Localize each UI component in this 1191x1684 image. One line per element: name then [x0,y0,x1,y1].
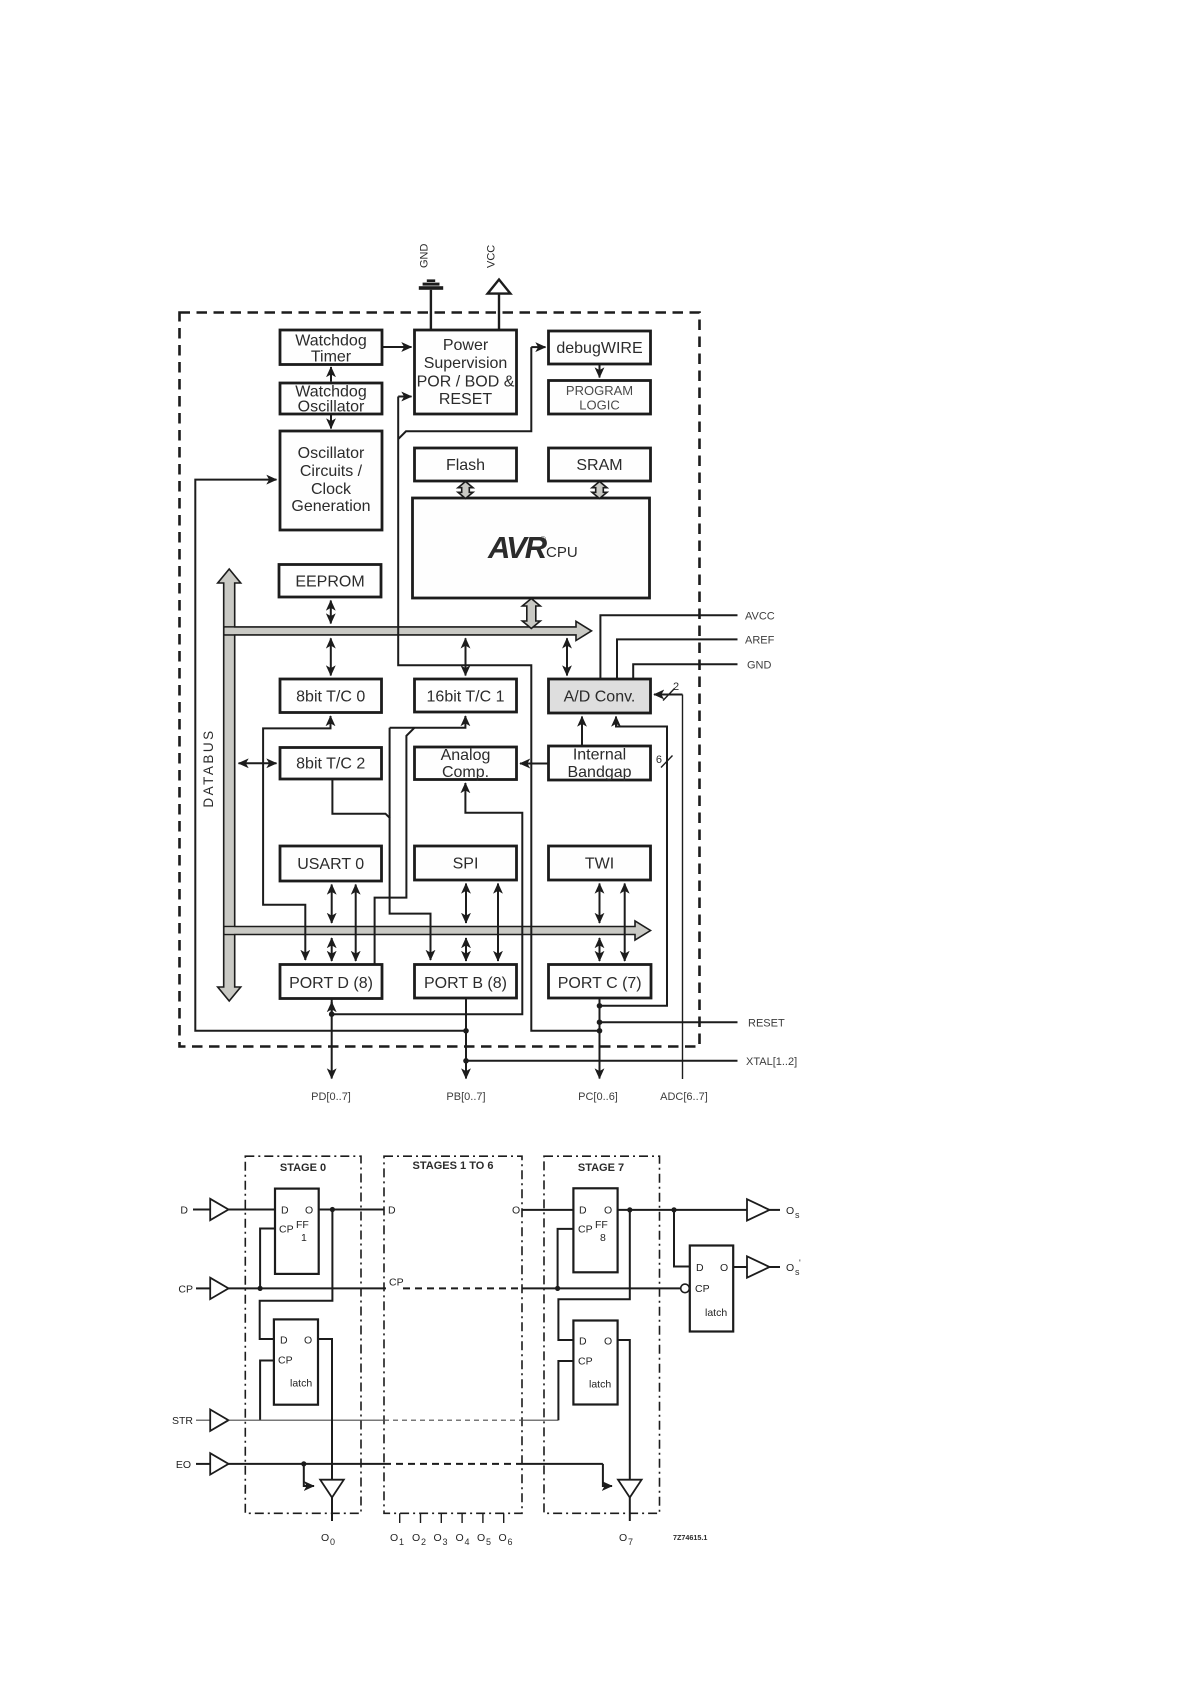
svg-text:O: O [512,1205,520,1217]
block A/D Conv [549,679,651,713]
svg-text:Timer: Timer [311,349,352,366]
wire RESET [597,1018,785,1030]
svg-text:D: D [388,1205,396,1217]
wire latch 7 CP to STR [558,1361,573,1420]
svg-text:Internal: Internal [573,747,626,764]
svg-text:SRAM: SRAM [576,457,622,474]
block Flash [415,448,517,481]
svg-text:Supervision: Supervision [424,355,508,372]
svg-text:AVCC: AVCC [745,611,775,623]
svg-text:AVR: AVR [487,530,548,565]
output buffer Os [747,1199,800,1220]
svg-text:LOGIC: LOGIC [579,398,619,413]
flip-flop FF1 [275,1189,319,1274]
svg-text:USART 0: USART 0 [297,856,364,873]
svg-text:8: 8 [600,1232,606,1244]
wire USART0 - PORT D direct [355,885,357,962]
wire D input to FF1 [229,1209,276,1211]
bus connector SRAM-CPU [592,482,607,499]
svg-text:CP: CP [278,1355,293,1367]
part number 7Z74615.1 [673,1533,707,1542]
wire CP dashed through stages 1 to 6 [403,1287,522,1289]
svg-text:8bit T/C 0: 8bit T/C 0 [296,689,365,706]
chip boundary dashed box [180,313,700,1047]
svg-text:1: 1 [301,1232,307,1244]
svg-text:s: s [795,1210,800,1220]
svg-text:FF: FF [296,1219,309,1231]
svg-text:PROGRAM: PROGRAM [566,383,633,398]
svg-text:RESET: RESET [748,1018,785,1030]
svg-text:7Z74615.1: 7Z74615.1 [673,1533,707,1542]
svg-text:PORT B (8): PORT B (8) [424,975,507,992]
svg-text:O: O [390,1532,398,1544]
svg-text:O: O [604,1205,612,1217]
wire Internal Bandgap to Analog Comp [520,763,549,765]
DATABUS vertical bus [201,569,241,1001]
wire SPI - databus [465,884,467,924]
wire PB port pins [446,998,485,1103]
wire FF1 output to latch 0 D [260,1210,333,1340]
wire Watchdog Timer - Watchdog Oscillator [330,367,332,382]
svg-text:PORT C (7): PORT C (7) [558,975,642,992]
svg-text:O: O [499,1532,507,1544]
svg-text:STR: STR [172,1415,193,1427]
svg-text:PD[0..7]: PD[0..7] [311,1091,351,1103]
svg-text:': ' [799,1258,801,1268]
svg-text:EEPROM: EEPROM [295,574,364,591]
wire AREF [617,635,775,680]
svg-text:ADC[6..7]: ADC[6..7] [660,1091,708,1103]
wire Internal Bandgap to A/D Conv [581,717,583,747]
block Internal Bandgap [549,746,651,781]
svg-text:latch: latch [589,1379,611,1391]
wire T/C2 output net to PORT B [332,728,430,960]
svg-text:EO: EO [176,1459,191,1471]
wire SPI - PORT B direct [497,884,499,962]
block Watchdog Timer [280,330,382,366]
block SRAM [549,448,651,481]
svg-text:CP: CP [178,1283,193,1295]
wire FF8 output to Os buffer [618,1207,747,1212]
wire EO stage 7 [522,1464,612,1486]
svg-text:O: O [786,1205,794,1217]
bus connector Flash-CPU [458,482,473,499]
output O0 [321,1532,335,1547]
wire databus - 8bit T/C 0 [330,638,332,675]
block Analog Comp [415,747,517,781]
svg-text:FF: FF [595,1219,608,1231]
svg-text:Oscillator: Oscillator [298,399,365,416]
svg-text:16bit T/C 1: 16bit T/C 1 [427,689,505,706]
wire STR line [229,1419,559,1421]
svg-text:debugWIRE: debugWIRE [556,340,642,357]
bus connector CPU-databus [522,599,540,629]
wire ADC[6..7] 2-channel net [654,681,683,1079]
svg-text:A/D Conv.: A/D Conv. [564,689,636,706]
svg-text:D: D [281,1205,289,1217]
wire FF8 output to output latch D [674,1210,690,1267]
wire CP line stage 0 [229,1229,404,1292]
wire databus - PORT D [331,938,333,961]
svg-text:Bandgap: Bandgap [567,764,631,781]
output latch Os' [690,1246,733,1332]
svg-text:O: O [304,1335,312,1347]
block 16bit T/C 1 [415,679,517,712]
svg-text:O: O [305,1205,313,1217]
output buffer Os' [747,1256,801,1277]
svg-text:Watchdog: Watchdog [295,333,366,350]
wire FF1 output to stage 1 D [319,1205,396,1217]
svg-text:4: 4 [465,1537,470,1547]
wire USART0 - databus [331,885,333,924]
svg-text:O: O [434,1532,442,1544]
wire ADC 6-channel input net from PORT C [597,717,673,1009]
input buffer EO [176,1453,229,1474]
wire XTAL [463,1056,797,1068]
svg-text:3: 3 [443,1537,448,1547]
stages 1 to 6 dash-dot box [384,1156,522,1513]
wire databus - PORT B [465,938,467,961]
block 8bit T/C 2 [280,748,382,780]
svg-text:VCC: VCC [486,245,498,268]
wire databus - PORT C [599,938,601,961]
input buffer D [180,1199,228,1220]
svg-text:GND: GND [747,660,772,672]
latch stage 7 [573,1321,617,1405]
wire databus - 16bit T/C 1 [465,638,467,675]
svg-text:CP: CP [389,1277,404,1289]
wire databus - 8bit T/C 2 [239,762,277,764]
svg-text:O: O [720,1262,728,1274]
svg-text:CP: CP [695,1283,710,1295]
svg-text:O: O [477,1532,485,1544]
svg-text:2: 2 [421,1537,426,1547]
block USART 0 [280,846,382,881]
svg-text:2: 2 [673,681,679,693]
block AVR CPU U1 [413,498,650,598]
svg-text:D: D [180,1205,188,1217]
svg-text:Circuits /: Circuits / [300,463,363,480]
svg-text:O: O [321,1532,329,1544]
svg-text:GND: GND [419,244,431,269]
wire latch 7 output to tri-state buffer [618,1340,630,1480]
latch stage 0 [274,1319,318,1404]
svg-text:D: D [696,1262,704,1274]
wire Watchdog Oscillator - Oscillator Circuits [330,415,332,429]
svg-text:XTAL[1..2]: XTAL[1..2] [746,1056,797,1068]
wire GND right [633,660,771,680]
wire PD port pins [311,999,351,1104]
wire EO line stage 0 [229,1461,385,1486]
svg-text:O: O [604,1336,612,1348]
svg-text:0: 0 [330,1537,335,1547]
svg-text:Clock: Clock [311,481,352,498]
wire Analog Comp inputs from PORT D pins [329,783,522,1017]
svg-text:Power: Power [443,337,489,354]
block PORT D (8) [280,965,382,999]
data bus upper horizontal [224,621,592,640]
block Watchdog Oscillator [280,383,382,416]
block PORT C (7) [549,965,652,999]
svg-text:6: 6 [508,1537,513,1547]
svg-text:STAGE 0: STAGE 0 [280,1162,326,1174]
wire latch 0 output to tri-state buffer [318,1339,332,1480]
svg-text:STAGE 7: STAGE 7 [578,1162,624,1174]
svg-text:TWI: TWI [585,856,614,873]
block debugWIRE [549,331,651,364]
block Oscillator Circuits / Clock Generation [280,431,382,530]
svg-text:DATABUS: DATABUS [201,728,216,807]
svg-text:STAGES 1 TO 6: STAGES 1 TO 6 [413,1160,494,1172]
svg-text:SPI: SPI [453,856,479,873]
wire EO dashed through stages 1 to 6 [384,1463,522,1465]
power symbol VCC [486,245,511,330]
wire databus - A/D Conv [566,638,568,675]
stage 0 dash-dot box [245,1156,361,1513]
svg-text:O: O [619,1532,627,1544]
wire TWI - PORT C direct [624,884,626,962]
svg-text:PORT D (8): PORT D (8) [289,975,373,992]
wire debugWIRE to PROGRAM LOGIC [599,364,601,378]
wire clock net to Oscillator Circuits [195,480,469,1034]
stage 7 dash-dot box [544,1156,660,1513]
svg-text:D: D [579,1205,587,1217]
wire T0 pin net: T/C0 to PORT D [263,716,330,960]
svg-text:Generation: Generation [291,498,370,515]
block 8bit T/C 0 [280,679,382,713]
wire FF8 output to latch 7 D [558,1210,629,1340]
stage 1-6 output stubs [400,1513,504,1523]
svg-text:Flash: Flash [446,457,485,474]
svg-text:PB[0..7]: PB[0..7] [446,1091,485,1103]
svg-text:CP: CP [279,1224,294,1236]
input buffer CP [178,1278,228,1299]
svg-text:1: 1 [399,1537,404,1547]
flip-flop FF8 [573,1188,617,1272]
svg-text:RESET: RESET [439,391,493,408]
block Power Supervision POR / BOD & RESET [415,330,517,414]
svg-text:latch: latch [705,1307,727,1319]
svg-text:O: O [786,1262,794,1274]
block TWI [549,846,651,880]
svg-text:7: 7 [628,1537,633,1547]
wire CP stage 7 to output latch bubble [522,1229,689,1293]
svg-text:O: O [456,1532,464,1544]
svg-text:CP: CP [578,1356,593,1368]
tri-state buffer stage 0 [320,1480,344,1521]
svg-text:CP: CP [578,1224,593,1236]
block EEPROM [279,565,381,598]
svg-text:®: ® [540,535,546,544]
svg-text:AREF: AREF [745,635,775,647]
wire Watchdog Timer to Power Supervision [382,346,412,348]
svg-text:CPU: CPU [546,544,578,561]
ground symbol GND [419,244,444,331]
wire EEPROM - databus [330,601,332,624]
wire AVCC [600,611,774,680]
tri-state buffer stage 7 [618,1480,642,1521]
block PROGRAM LOGIC [549,381,651,415]
svg-text:6: 6 [656,754,662,766]
wire latch 0 CP to STR [260,1361,274,1421]
wire Os' latch output [733,1266,747,1268]
block PORT B (8) [415,965,517,999]
svg-text:Oscillator: Oscillator [298,445,365,462]
svg-text:O: O [412,1532,420,1544]
svg-text:5: 5 [486,1537,491,1547]
output O7 [619,1532,633,1547]
svg-text:D: D [280,1335,288,1347]
svg-text:latch: latch [290,1378,312,1390]
svg-text:D: D [579,1336,587,1348]
wire stages 1-6 output to FF8 D [523,1209,574,1211]
svg-text:s: s [795,1267,800,1277]
data bus lower horizontal [224,921,651,940]
wire PC port pins [578,998,618,1103]
wire TWI - databus [599,884,601,924]
svg-text:PC[0..6]: PC[0..6] [578,1091,618,1103]
wire T1 pin net: T/C1 to PORT D [375,716,466,964]
wire internal reset net to Power Supervision and debugWIRE [398,347,602,1034]
label O into stage 7 [512,1205,520,1217]
output labels O1-O6 [390,1532,513,1547]
svg-text:POR / BOD &: POR / BOD & [417,374,515,391]
input buffer STR [172,1410,229,1431]
svg-text:Comp.: Comp. [442,764,489,781]
label ADC pins [660,1091,708,1103]
svg-text:Analog: Analog [441,747,491,764]
svg-text:8bit T/C 2: 8bit T/C 2 [296,756,365,773]
block SPI [415,846,517,880]
